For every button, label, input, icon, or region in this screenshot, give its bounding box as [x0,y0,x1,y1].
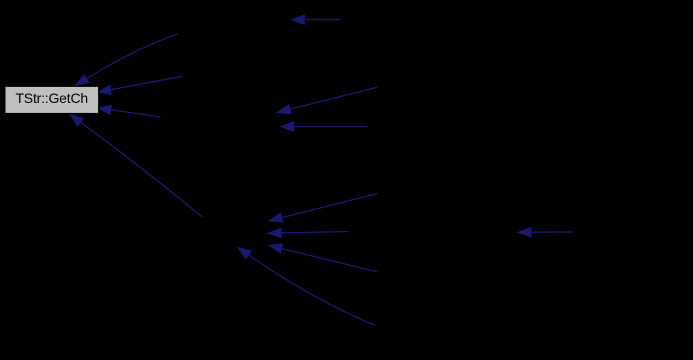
wire: edge from hidden caller node C1 into lower right edge of TStr::GetCh [96,105,160,117]
wire: horizontal edge into right edge of hidden node C1 [279,121,367,132]
wire: curved edge from hidden caller node A1 into top edge of TStr::GetCh [74,34,178,87]
wire: edge from hidden caller into bottom-right corner of hidden node D1 [268,243,378,272]
wire: horizontal edge into right edge of hidden node A1 (top of graph) [290,14,341,25]
wire: curved edge from hidden caller into bottom edge of hidden node D1 [237,247,375,326]
wire: edge from hidden caller into top-right corner of hidden node D1 [268,194,378,223]
wire: isolated horizontal edge between two hidden nodes at right [517,227,573,238]
wire: edge from hidden caller into top-right corner of hidden node C1 [276,87,377,114]
svg-text:TStr::GetCh: TStr::GetCh [15,90,87,106]
wire: long diagonal edge from hidden caller node D1 into bottom edge of TStr::GetCh [69,114,202,217]
node TStr::GetCh (current function, highlighted grey box) [5,86,99,113]
wire: horizontal edge into right edge of hidden node D1 [267,228,349,239]
wire: edge from hidden caller node B1 into upper right edge of TStr::GetCh [96,76,182,95]
